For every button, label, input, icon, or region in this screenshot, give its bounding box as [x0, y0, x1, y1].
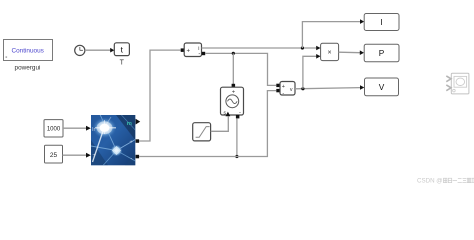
svg-text:P: P: [379, 48, 385, 58]
arrowhead into display P: [360, 50, 364, 55]
wire 1000 to PV Ir: [63, 127, 87, 129]
powergui block: [4, 40, 53, 61]
arrowhead into Ir: [86, 126, 91, 131]
current source bottom port stub: [236, 115, 240, 119]
svg-text:-: -: [131, 155, 133, 161]
arrowhead into display V: [360, 85, 364, 90]
svg-text:+: +: [282, 84, 285, 90]
voltage measurement block: [280, 82, 295, 97]
wire saturation to current source signal input: [211, 116, 229, 131]
wire PV- to voltage measurement minus: [139, 91, 276, 157]
voltage measurement - port stub: [276, 89, 279, 92]
arrowhead into display I: [360, 19, 364, 24]
arrowhead into product input 2: [316, 54, 320, 59]
controlled current source block: [221, 87, 244, 116]
product block: [321, 43, 339, 60]
PV - output port stub: [136, 155, 140, 159]
wire clock to t: [85, 49, 111, 51]
svg-text:Ir: Ir: [92, 127, 96, 133]
current source signal input arrow: [226, 112, 231, 117]
svg-text:I: I: [380, 17, 382, 27]
constant 25: [45, 145, 63, 163]
constant 1000: [44, 120, 63, 137]
faded scope block: [451, 73, 469, 94]
svg-text:V: V: [379, 82, 385, 92]
wire 25 to PV T: [63, 154, 87, 156]
display V: [365, 78, 399, 96]
voltage measurement + port stub: [276, 84, 279, 87]
watermark: [417, 177, 474, 184]
scope input port chevron 2: [446, 85, 451, 91]
current measurement block: [184, 43, 201, 58]
svg-text:T: T: [120, 60, 125, 67]
svg-text:-: -: [198, 52, 200, 58]
wire product to display P: [339, 51, 360, 54]
arrowhead into T: [86, 153, 91, 158]
current measurement input port stub: [181, 48, 185, 52]
junction on v wire: [301, 87, 304, 90]
svg-text:×: ×: [328, 50, 332, 57]
wire PV+ to current measurement: [139, 50, 181, 141]
wire CM minus to voltage measurement plus: [205, 53, 276, 85]
svg-text:Continuous: Continuous: [12, 48, 44, 55]
arrowhead into t: [110, 48, 114, 53]
svg-text:CSDN @: CSDN @: [417, 177, 443, 184]
svg-text:+: +: [186, 48, 190, 54]
svg-text:m: m: [127, 121, 132, 127]
svg-text:25: 25: [50, 152, 58, 159]
svg-text:powergui: powergui: [15, 64, 41, 71]
clock block: [75, 45, 85, 55]
arrowhead into product input 1: [316, 46, 320, 51]
display I: [364, 14, 399, 31]
junction on i wire: [301, 46, 304, 49]
svg-text:1000: 1000: [47, 127, 61, 133]
scope input port chevron 1: [446, 76, 451, 82]
PV m output port arrow: [136, 119, 141, 125]
junction to current source: [232, 52, 235, 55]
wire v signal to display V: [295, 88, 360, 89]
svg-text:+: +: [130, 139, 133, 145]
svg-text:v: v: [290, 87, 293, 93]
saturation block: [193, 123, 211, 141]
svg-text:-: -: [282, 90, 284, 96]
wire i signal to product and display I: [202, 47, 317, 49]
wire current source - down to PV - run: [236, 118, 238, 156]
wire junction down to current source +: [232, 53, 234, 84]
wire junction up to display I: [302, 22, 360, 48]
PV + output port stub: [136, 139, 140, 143]
PV array block U1: [91, 115, 135, 166]
display P: [364, 44, 399, 62]
wire junction up to product input 2: [303, 56, 317, 88]
To Workspace block t: [114, 43, 129, 56]
junction on PV - run: [235, 155, 238, 158]
current measurement minus port stub: [202, 52, 205, 55]
current source top port stub: [232, 84, 236, 88]
